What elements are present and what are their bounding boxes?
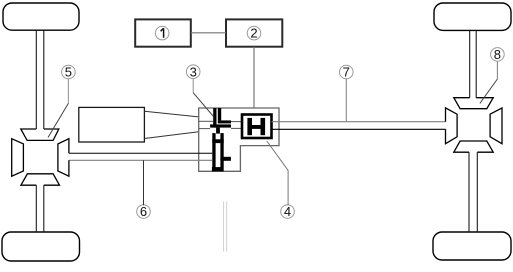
front drive shaft upper line — [69, 152, 212, 154]
leader 5 diagonal — [48, 103, 68, 137]
wheel front-left — [3, 3, 79, 30]
front differential right side gear — [58, 139, 69, 177]
leader 4 — [267, 141, 288, 205]
rear differential top bevel gear — [454, 98, 493, 109]
label 6 — [137, 205, 151, 219]
input shaft line upper — [199, 120, 214, 122]
wheel rear-right (bottom-right) — [433, 232, 511, 260]
svg-text:3: 3 — [190, 64, 197, 79]
transfer unit U (H symbol) outer case — [242, 115, 272, 139]
front differential top bevel gear — [21, 129, 59, 140]
propeller shaft lower line — [272, 128, 446, 130]
label 2 — [247, 26, 261, 40]
input shaft line lower — [199, 128, 210, 130]
propeller shaft upper line — [272, 121, 446, 123]
wheel front-right (bottom-left) — [2, 232, 80, 261]
axle shaft rear-right — [468, 152, 470, 232]
svg-text:7: 7 — [343, 65, 350, 80]
gear train: horizontal shaft bar 2 — [210, 124, 231, 127]
label 5 — [62, 65, 76, 79]
leader 8 diagonal — [480, 79, 498, 103]
rear differential left side gear — [446, 108, 458, 144]
label 7 — [340, 65, 354, 79]
label 4 — [281, 205, 295, 219]
box 1 (control unit) — [135, 19, 191, 46]
scan artifact double line — [223, 202, 225, 252]
label 1 — [155, 26, 169, 40]
transfer H crossbar — [252, 125, 261, 129]
wheel rear-left (top-right) — [434, 3, 511, 30]
transmission case outline — [199, 108, 279, 171]
axle shaft front-left — [35, 30, 37, 129]
leader 5 vertical — [67, 78, 69, 103]
front drive shaft lower line — [69, 159, 212, 161]
shaft to transfer upper — [231, 121, 242, 123]
leader 3 diagonal — [193, 93, 213, 117]
gear train: center stem — [216, 128, 220, 134]
gear train: bottom cap — [212, 167, 222, 171]
wire box1-box2 — [191, 32, 226, 34]
leader 8 vertical — [496, 62, 498, 80]
svg-text:6: 6 — [140, 204, 147, 219]
gear train: final drive arm — [220, 157, 231, 161]
svg-text:5: 5 — [65, 65, 72, 80]
label 3 — [186, 65, 200, 79]
gear train: lower left bar — [212, 133, 215, 171]
gear train: lower right bar — [220, 133, 223, 171]
box 2 (control unit) — [226, 19, 282, 46]
label 8 — [491, 48, 505, 62]
gear train: rung — [212, 139, 223, 143]
svg-text:2: 2 — [250, 26, 257, 41]
transfer H right bar — [261, 118, 266, 135]
transfer H left bar — [247, 118, 252, 135]
engine-to-gearbox coupling bottom — [144, 132, 198, 139]
engine — [79, 107, 145, 142]
front differential left side gear — [12, 139, 24, 177]
axle shaft rear-left — [469, 30, 471, 97]
svg-text:8: 8 — [494, 47, 501, 62]
gear train: upper gear bar A — [213, 108, 216, 128]
gear train: horizontal shaft bar 1 — [218, 120, 231, 123]
svg-text:4: 4 — [284, 204, 291, 219]
leader 6 — [143, 160, 145, 205]
leader 3 vertical — [192, 78, 194, 93]
wire box2 to transmission — [253, 47, 255, 108]
leader 7 — [345, 78, 347, 121]
front differential bottom bevel gear — [21, 174, 60, 185]
gear train: upper gear bar B — [218, 108, 221, 120]
rear differential bottom bevel gear — [454, 141, 493, 152]
rear differential right side gear — [490, 108, 502, 144]
shaft to transfer lower — [231, 127, 242, 129]
axle shaft front-right — [35, 185, 37, 232]
engine-to-gearbox coupling top — [144, 111, 198, 117]
